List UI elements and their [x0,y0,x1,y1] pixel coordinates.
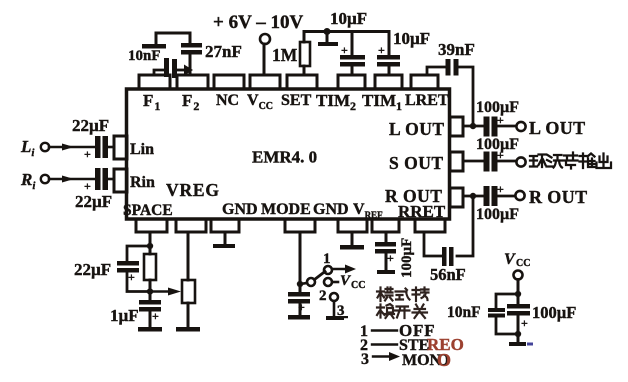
pin MODE [285,219,315,232]
svg-text:R OUT: R OUT [529,187,588,207]
capacitor C 22uF (SPACE) [117,261,139,273]
svg-text:F2: F2 [182,91,199,113]
ground (potentiometer) [187,303,190,327]
capacitor C 10nF plate [142,44,166,49]
wire cap to surround terminal [498,160,517,163]
ground (GND2 pin) [351,232,354,245]
pin NC [214,75,244,89]
pin label NC [216,92,239,109]
char kai [395,307,410,319]
wire node to 10nF [496,294,518,308]
pin F1 [139,75,170,89]
char rao [547,155,563,168]
legend row 3 MONO [361,351,369,368]
svg-text:V: V [504,251,516,268]
value label 22uF (L in) [72,116,109,135]
svg-text:100µF: 100µF [476,99,519,116]
svg-text:22µF: 22µF [72,116,109,135]
pin R OUT [450,188,463,207]
svg-text:CC: CC [516,258,530,269]
svg-text:RRET: RRET [398,202,446,221]
svg-text:10nF: 10nF [447,304,481,321]
svg-text:27nF: 27nF [205,42,242,61]
ground (VREF cap) [385,254,388,271]
pin label TIM2 [316,91,356,113]
svg-text:O: O [437,350,451,370]
svg-text:S OUT: S OUT [389,153,444,173]
value label 100uF (VREF, vertical) [399,238,415,278]
wire SPACE pin down [149,232,152,254]
wire LRET to 39nF [427,67,445,75]
pin label S OUT [389,153,444,173]
svg-text:TIM1: TIM1 [362,91,402,113]
pin VREG [176,219,206,232]
potentiometer R (VREG) [182,280,195,303]
svg-text:39nF: 39nF [438,40,475,59]
wire 56nF to RRET pin [424,232,442,256]
value label 1M [272,45,298,65]
pin S OUT [450,152,463,171]
wire junction to 22uF [127,246,150,261]
svg-text:10µF: 10µF [330,9,367,28]
ground (VCC filter) [509,342,526,346]
net label R OUT [529,187,588,207]
svg-text:+: + [521,316,528,330]
node R OUT junction [470,193,476,199]
net label surround output (Chinese) [530,153,611,169]
pin label L OUT [389,119,445,139]
svg-text:10µF: 10µF [393,29,430,48]
node L OUT junction [470,123,476,129]
svg-text:Rin: Rin [130,174,155,191]
capacitor C 27nF [181,43,202,55]
pin Lin [114,136,127,159]
svg-text:3: 3 [361,351,369,368]
svg-text:LRET: LRET [405,92,449,109]
char huan [530,155,546,168]
pin F2 [177,75,208,89]
pin number 1 [323,251,331,267]
pin label Lin [130,141,154,158]
wire R OUT node down to 56nF [457,196,473,256]
wire F1 riser and bracket to 27nF [156,33,190,46]
net label VCC (switch) [340,273,365,291]
pin label MODE [261,201,311,218]
svg-text:TIM2: TIM2 [316,91,356,113]
value label 10uF (TIM2) [330,9,367,28]
svg-text:100µF: 100µF [476,206,519,223]
wire 27nF to F2 pin [189,55,192,75]
char shi [396,289,410,300]
svg-text:NC: NC [216,92,239,109]
wire cap to R OUT terminal [498,195,516,198]
capacitor C 10nF (VCC) [488,308,505,318]
svg-text:+: + [128,270,135,284]
pin number 2 [319,288,327,304]
char huan2 [377,304,394,318]
svg-text:VREG: VREG [166,180,220,200]
capacitor C 22uF (L in) [95,136,108,158]
wire supply to VCC pin [263,44,266,75]
pin GND2 [338,219,367,232]
wire Li to cap with arrow [49,146,95,149]
capacitor C 100uF (VCC) [507,304,530,316]
capacitor C 10uF on TIM1 [388,32,391,56]
value label 100uF (L OUT) [476,99,519,116]
capacitor C 22uF (R in) [95,168,108,190]
svg-text:22µF: 22µF [74,260,111,279]
pin label VCC [247,92,273,112]
pin label R OUT [385,186,442,206]
svg-text:CC: CC [351,280,365,291]
svg-text:GND: GND [313,201,349,218]
svg-text:+: + [84,147,91,161]
wire VCC terminal down [517,280,520,305]
svg-text:MODE: MODE [261,201,311,218]
svg-text:+: + [152,309,159,323]
svg-text:100µF: 100µF [476,136,519,153]
wire contact1 to VCC with arrow [332,268,347,270]
svg-text:100µF: 100µF [532,303,576,322]
svg-text:VREF: VREF [353,201,383,220]
char mo [377,288,393,302]
value label 10uF (TIM1) [393,29,430,48]
IC U1 EMR4.0 body [127,89,450,219]
pin TIM2 [338,75,365,89]
pin VREF [372,219,399,232]
svg-text:+: + [378,43,385,57]
terminal VCC (bottom right) [504,251,530,269]
value label 1uF [110,306,139,325]
wire top rail [304,30,389,33]
node MODE junction [297,281,303,287]
IC label EMR4.0 [252,148,317,167]
pin SPACE [136,219,167,232]
pin LRET [411,75,438,89]
char zhuan [413,288,429,302]
pin label TIM1 [362,91,402,113]
resistor R 1M [300,42,310,66]
pin number 3 [337,303,345,319]
capacitor C 100uF (R OUT) [484,186,498,206]
switch contact 1 [324,266,332,274]
wire L OUT pin to cap [463,125,484,128]
capacitor C (MODE) [299,284,302,292]
ground (MODE cap) [299,304,302,316]
wire 1M bottom to SET pin [303,66,306,75]
wire cap to Rin pin [106,178,114,181]
pin RRET [415,219,445,232]
terminal R OUT [515,191,524,200]
svg-text:22µF: 22µF [75,192,112,211]
capacitor C 1uF [149,292,152,301]
net label +6V - 10V [213,12,303,33]
svg-text:56nF: 56nF [430,265,466,284]
value label 100uF (R OUT) [476,206,519,223]
svg-text:Ri: Ri [20,170,36,192]
svg-text:+: + [387,251,394,265]
svg-text:L OUT: L OUT [389,119,445,139]
node VCC junction [515,291,521,297]
value label 22uF (SPACE) [74,260,111,279]
pin L OUT [450,117,463,136]
mode switch legend (Chinese) [377,288,429,319]
value label 27nF [205,42,242,61]
terminal Li input [20,137,35,159]
switch SW1 pole [300,278,315,286]
value label 10nF (VCC) [447,304,481,321]
wire VREG pin down [187,232,190,280]
wire MODE pin down [299,232,302,284]
svg-text:1M: 1M [272,45,298,65]
svg-text:F1: F1 [143,91,160,113]
wire cap to Lin pin [106,146,114,149]
svg-text:MON: MON [402,352,442,369]
wire node2 to potentiometer wiper with arrow [150,290,170,293]
char shu [580,154,595,169]
capacitor C 100uF (S OUT) [484,152,498,172]
capacitor C 10uF on TIM2 [351,32,354,56]
ground (1uF) [149,312,152,328]
svg-text:EMR4. 0: EMR4. 0 [252,148,317,167]
svg-text:+: + [341,43,348,57]
wire cap to L OUT terminal [498,125,517,128]
pin label F2 [182,91,199,113]
pin label VREG [166,180,220,200]
svg-text:100µF: 100µF [399,238,415,278]
resistor R (SPACE) [144,254,156,280]
pin label F1 [143,91,160,113]
terminal Ri input [20,170,36,192]
svg-text:Lin: Lin [130,141,154,158]
switch contact 3 [330,293,338,301]
svg-text:2: 2 [319,288,327,304]
pin label VREF [353,201,383,220]
svg-text:VCC: VCC [247,92,273,112]
value label 56nF [430,265,466,284]
pin VCC [250,75,280,89]
svg-text:+ 6V – 10V: + 6V – 10V [213,12,303,33]
value label 10nF [128,48,161,64]
pin Rin [114,169,127,192]
pin label Rin [130,174,155,191]
wire F1 to series cap [154,70,164,75]
terminal L OUT [516,122,525,131]
svg-text:+: + [84,179,91,193]
pin label SPACE [123,202,173,219]
svg-text:L OUT: L OUT [529,118,586,138]
pin GND1 [211,219,239,232]
pin SET [287,75,317,89]
svg-text:SET: SET [281,92,312,109]
capacitor C 100uF (VREF) [385,232,388,242]
node ground junction [515,331,521,337]
wire series cap to F2 node with arrowhead [178,69,185,72]
legend row 1 OFF [360,323,368,340]
wire Ri to cap with arrow [49,178,95,181]
node SPACE junction [147,243,153,249]
value label 22uF (R in) [75,192,112,211]
pin TIM1 [375,75,402,89]
svg-text:SPACE: SPACE [123,202,173,219]
capacitor C between F1-F2 (series) [164,58,177,78]
pin label GND2 [313,201,349,218]
ground (switch contact 3) [333,301,336,316]
wire 10nF bottom to node [496,318,518,335]
junction on rail [324,28,331,35]
net label L OUT [529,118,586,138]
svg-text:+: + [497,182,504,196]
value label 100uF (VCC) [532,303,576,322]
char sheng [564,153,578,169]
wire S OUT pin to cap [463,160,484,163]
svg-text:10nF: 10nF [128,48,161,64]
svg-text:1: 1 [323,251,331,267]
pin label SET [281,92,312,109]
wire 22uF bottom to node2 [127,273,150,292]
legend row 2 STEREO [360,337,368,354]
svg-text:GND: GND [222,201,258,218]
switch blade [315,272,326,280]
capacitor C 100uF (L OUT) [484,117,498,137]
value label 100uF (S OUT) [476,136,519,153]
wire resistor bottom to node2 [149,280,152,292]
pin label GND1 [222,201,258,218]
ground stub on rail [326,32,329,43]
pin label LRET [405,92,449,109]
value label 39nF [438,40,475,59]
capacitor C 39nF [446,59,459,76]
wire 100uF bottom to ground [517,316,520,343]
char guan [413,305,428,319]
capacitor C 56nF [442,247,454,266]
char chu [597,154,612,169]
terminal surround output [516,157,525,166]
svg-text:Li: Li [20,137,35,159]
wire rail to 1M top [303,32,306,43]
ground (GND1 pin) [224,232,227,244]
node SPACE junction 2 [147,288,153,294]
pin label RRET [398,202,446,221]
wire R OUT pin to cap [463,195,484,198]
terminal +6V supply circle [260,34,270,44]
svg-text:1µF: 1µF [110,306,139,325]
wire 39nF to L OUT node [458,67,473,126]
switch contact 2 [324,278,338,286]
